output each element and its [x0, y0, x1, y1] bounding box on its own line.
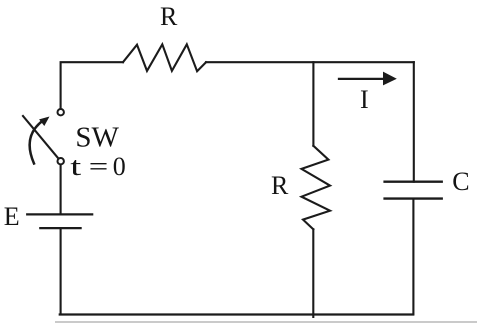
- switch SW actuation arc: [30, 121, 43, 164]
- switch SW blade: [23, 116, 58, 158]
- wire left lower (battery E to bottom wire): [60, 228, 62, 314]
- wire right branch lower (capacitor C1 to bottom wire): [412, 199, 414, 315]
- resistor R1: [123, 44, 206, 71]
- capacitor C1: [385, 182, 442, 199]
- switch SW top contact: [58, 109, 64, 115]
- svg-text:=: =: [89, 152, 109, 181]
- wire bottom: [60, 313, 413, 315]
- svg-text:C: C: [452, 167, 469, 196]
- current arrow I head: [383, 72, 397, 86]
- battery E: [27, 214, 92, 228]
- svg-text:SW: SW: [75, 122, 119, 154]
- resistor R2: [302, 146, 331, 230]
- svg-text:E: E: [4, 202, 20, 231]
- wire top-left (switch top contact up and right to resistor R1): [61, 62, 123, 108]
- current arrow I shaft: [339, 78, 385, 80]
- switch SW arc arrowhead: [39, 117, 49, 127]
- svg-text:R: R: [271, 171, 289, 200]
- wire switch to battery: [60, 165, 62, 214]
- wire right branch upper (top-right corner to capacitor C1): [413, 62, 415, 182]
- wire middle branch upper (node to resistor R2): [312, 62, 314, 146]
- svg-text:0: 0: [113, 152, 126, 181]
- switch SW bottom contact: [58, 158, 64, 164]
- wire middle branch lower (resistor R2 to bottom wire): [312, 229, 314, 317]
- wire top-right (resistor R1 to top-right corner): [206, 61, 414, 63]
- svg-text:t: t: [70, 152, 82, 181]
- svg-text:R: R: [160, 2, 178, 31]
- svg-text:I: I: [360, 85, 369, 114]
